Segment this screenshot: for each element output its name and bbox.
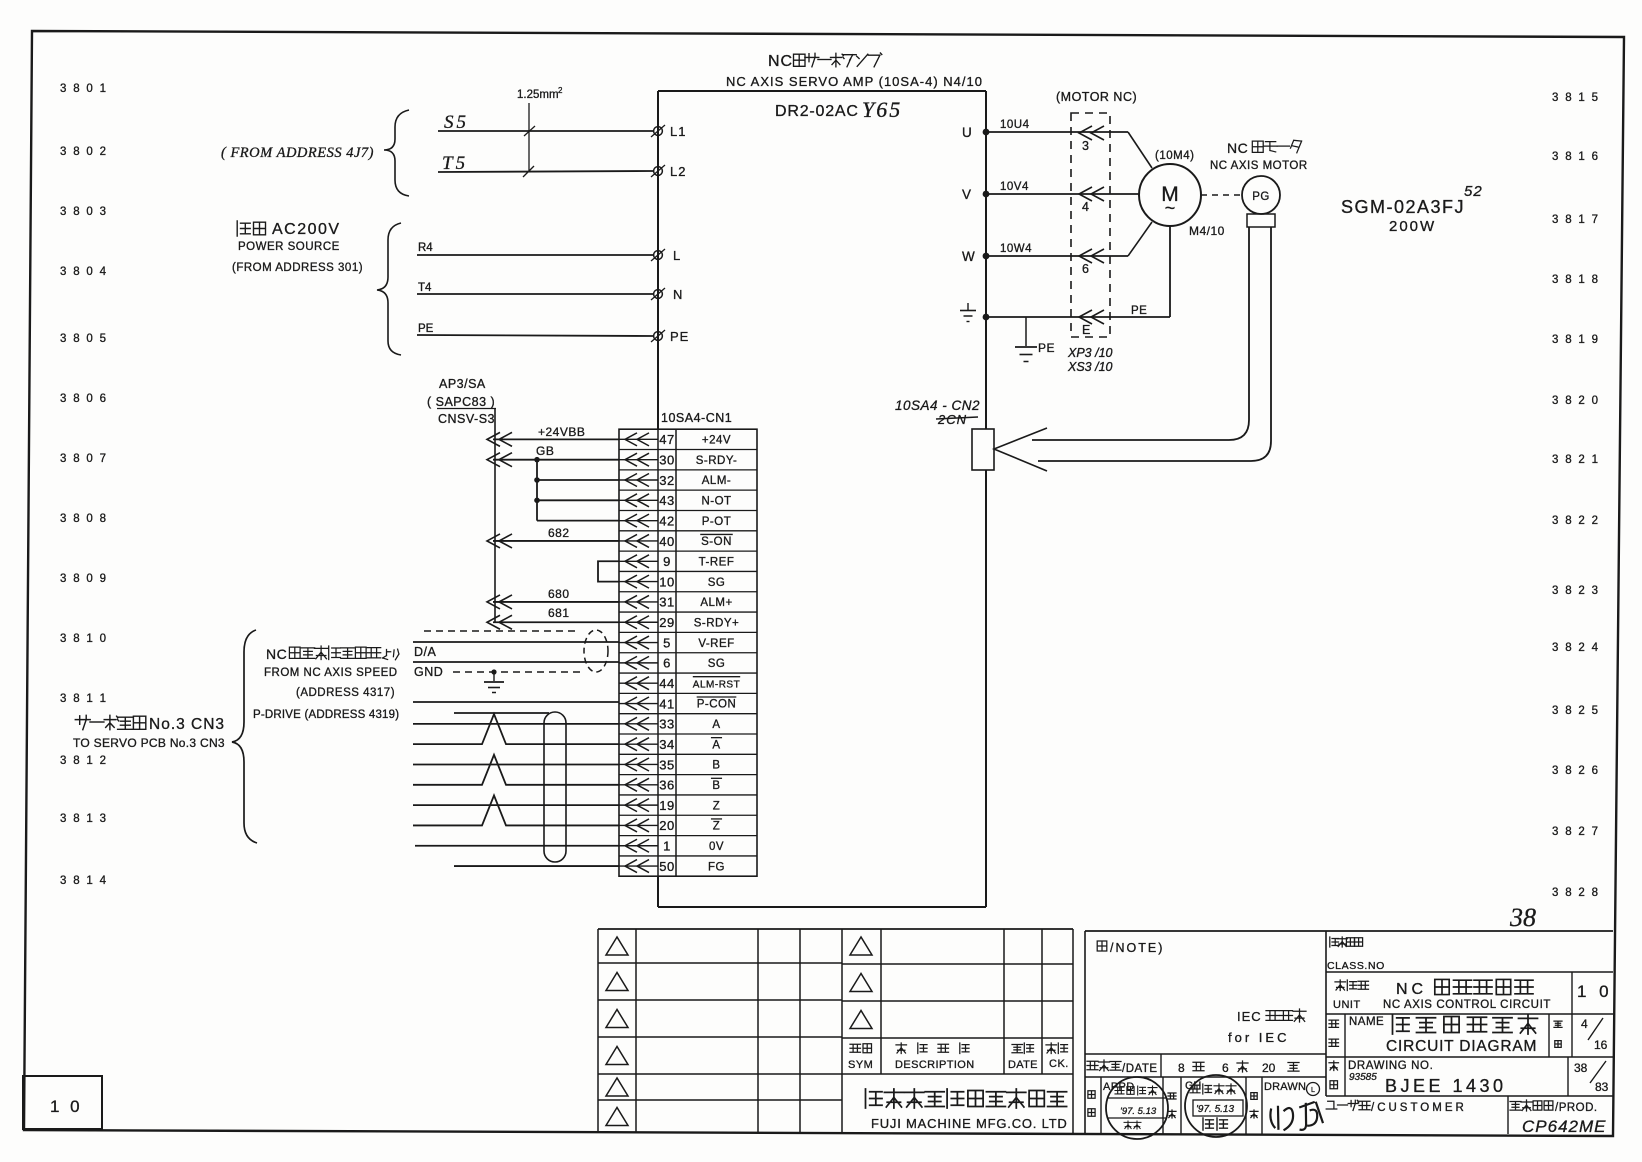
svg-text:( FROM ADDRESS 4J7): ( FROM ADDRESS 4J7) — [221, 145, 374, 161]
svg-text:36: 36 — [659, 778, 674, 793]
sheet number box 10 — [23, 1076, 102, 1129]
twisted pair A/A- pins 33/34 — [413, 714, 619, 744]
wire size callout 1.25mm2 — [517, 86, 563, 177]
svg-text:2CN: 2CN — [937, 412, 967, 427]
svg-text:10W4: 10W4 — [1000, 243, 1032, 255]
svg-text:S-RDY+: S-RDY+ — [694, 617, 740, 629]
label AP3/SA connector — [427, 377, 496, 426]
svg-text:/NOTE): /NOTE) — [1110, 941, 1164, 955]
svg-text:29: 29 — [659, 615, 674, 630]
svg-text:52: 52 — [1464, 183, 1483, 200]
svg-text:3 8 0 5: 3 8 0 5 — [60, 333, 108, 345]
svg-text:(10M4): (10M4) — [1155, 150, 1194, 162]
svg-text:200W: 200W — [1389, 218, 1436, 235]
svg-text:3 8 2 4: 3 8 2 4 — [1552, 642, 1600, 654]
brace from address 4J7 group — [384, 110, 409, 196]
svg-text:3 8 0 2: 3 8 0 2 — [60, 146, 108, 158]
wire P-DRIVE to pin41 P-CON — [413, 701, 619, 703]
encoder PG — [1242, 176, 1280, 227]
svg-text:L: L — [673, 248, 681, 263]
svg-text:43: 43 — [659, 493, 674, 508]
svg-text:FG: FG — [708, 861, 725, 873]
label servo PCB No.3 CN3 — [75, 715, 225, 733]
brace power source group — [377, 223, 401, 355]
brace servo PCB group — [232, 630, 257, 843]
svg-text:4: 4 — [1082, 200, 1089, 214]
svg-text:S-RDY-: S-RDY- — [696, 455, 738, 467]
svg-text:3: 3 — [1082, 139, 1089, 153]
label power source AC200V — [237, 221, 340, 238]
date row — [1085, 1054, 1326, 1077]
twisted pair B/B- pins 35/36 — [413, 755, 619, 785]
servo amp model DR2-02AC Y65 — [775, 97, 902, 122]
svg-text:NAME: NAME — [1349, 1016, 1384, 1028]
svg-text:UNIT: UNIT — [1333, 999, 1361, 1011]
svg-text:3 8 1 2: 3 8 1 2 — [60, 755, 108, 767]
svg-text:83: 83 — [1595, 1080, 1609, 1094]
svg-text:ALM+: ALM+ — [700, 597, 732, 609]
svg-text:/CUSTOMER: /CUSTOMER — [1371, 1102, 1467, 1114]
svg-text:M4/10: M4/10 — [1189, 224, 1225, 238]
svg-text:50: 50 — [659, 859, 674, 874]
pin 43 N-OT row — [619, 493, 732, 508]
terminal U output — [962, 125, 989, 140]
svg-text:Z: Z — [713, 800, 721, 812]
svg-text:10SA4 - CN2: 10SA4 - CN2 — [895, 398, 980, 413]
svg-text:10SA4-CN1: 10SA4-CN1 — [661, 411, 732, 425]
note box — [1085, 931, 1613, 1134]
svg-text:XP3 /10: XP3 /10 — [1067, 346, 1113, 360]
svg-text:SGM-02A3FJ: SGM-02A3FJ — [1341, 197, 1465, 217]
svg-text:ALM-: ALM- — [702, 475, 731, 487]
handwritten drawn by Esaka — [1269, 1101, 1323, 1133]
revision triangles left — [606, 937, 628, 1126]
label SGM-02A3FJ 200W — [1341, 183, 1483, 235]
junction bus ALM-/N-OT/P-OT — [534, 457, 619, 521]
svg-text:PE: PE — [418, 323, 434, 335]
svg-text:1 0: 1 0 — [1577, 982, 1613, 1001]
svg-text:~: ~ — [1165, 198, 1176, 218]
svg-text:10U4: 10U4 — [1000, 119, 1030, 131]
left margin line numbers 3801-3814 — [60, 83, 108, 887]
svg-text:for IEC: for IEC — [1228, 1030, 1289, 1045]
svg-text:S5: S5 — [444, 112, 469, 133]
pin 1 0V row — [619, 839, 724, 854]
pin 29 S-RDY+ row — [619, 615, 739, 630]
wire R4 to L — [417, 242, 653, 255]
svg-text:10: 10 — [659, 574, 674, 589]
wire 0V pin1 — [415, 845, 619, 847]
svg-text:N-OT: N-OT — [701, 496, 731, 508]
svg-text:V-REF: V-REF — [698, 638, 734, 650]
wire W 10W4 — [986, 222, 1152, 256]
svg-text:0V: 0V — [709, 841, 724, 853]
terminal V output — [962, 187, 989, 202]
pin 36 B row — [619, 778, 722, 793]
svg-text:NC: NC — [266, 646, 287, 662]
svg-text:+24V: +24V — [702, 435, 731, 447]
svg-text:19: 19 — [659, 798, 674, 813]
svg-text:10V4: 10V4 — [1000, 181, 1029, 193]
svg-text:6: 6 — [1222, 1061, 1229, 1075]
svg-text:SYM: SYM — [848, 1059, 873, 1071]
svg-text:20: 20 — [1262, 1061, 1276, 1075]
svg-text:3 8 0 3: 3 8 0 3 — [60, 206, 108, 218]
svg-text:35: 35 — [659, 757, 674, 772]
svg-text:32: 32 — [659, 473, 674, 488]
svg-text:No.3 CN3: No.3 CN3 — [149, 716, 225, 733]
pin 32 ALM- row — [619, 473, 731, 488]
pin 40 S-ON row — [619, 534, 733, 549]
svg-text:4: 4 — [1581, 1017, 1588, 1031]
svg-text:6: 6 — [1082, 262, 1089, 276]
motor pin 3 arrow — [1079, 126, 1104, 153]
svg-text:( SAPC83 ): ( SAPC83 ) — [427, 395, 495, 409]
wire PE motor earth — [986, 226, 1170, 317]
terminal W output — [962, 249, 989, 264]
svg-text:1 0: 1 0 — [50, 1097, 83, 1116]
motor pin E arrow — [1079, 310, 1104, 337]
svg-text:PE: PE — [670, 329, 689, 344]
svg-text:42: 42 — [659, 513, 674, 528]
svg-text:3 8 0 7: 3 8 0 7 — [60, 453, 108, 465]
svg-text:6: 6 — [663, 656, 671, 671]
connector 10SA4-CN2 — [972, 428, 1047, 471]
company box Fuji Machine — [866, 1089, 1068, 1131]
wire 682 pin40 to CNSV-S3 — [487, 526, 619, 548]
svg-text:3 8 1 9: 3 8 1 9 — [1552, 334, 1600, 346]
revision triangles right — [850, 937, 872, 1029]
wire V 10V4 — [986, 181, 1139, 194]
pin 44 ALM-RST row — [619, 676, 740, 691]
svg-text:33: 33 — [659, 717, 674, 732]
svg-text:3 8 2 1: 3 8 2 1 — [1552, 454, 1600, 466]
svg-text:(FROM ADDRESS 301): (FROM ADDRESS 301) — [232, 262, 363, 274]
svg-text:1: 1 — [663, 839, 671, 854]
svg-text:40: 40 — [659, 534, 674, 549]
svg-text:3 8 1 8: 3 8 1 8 — [1552, 274, 1600, 286]
svg-text:3 8 0 4: 3 8 0 4 — [60, 266, 108, 278]
revision table left section — [598, 929, 1073, 1133]
pin 20 Z row — [619, 818, 722, 833]
wire GB pin30 to CNSV-S3 — [487, 444, 619, 467]
svg-text:D/A: D/A — [414, 645, 437, 659]
svg-text:3 8 1 6: 3 8 1 6 — [1552, 151, 1600, 163]
svg-text:3 8 0 9: 3 8 0 9 — [60, 573, 108, 585]
svg-text:SG: SG — [708, 577, 726, 589]
approval stamps row — [1085, 1077, 1326, 1134]
svg-text:+24VBB: +24VBB — [538, 425, 585, 439]
svg-text:Y65: Y65 — [862, 97, 902, 122]
svg-text:NC AXIS SERVO AMP (10SA-4) N4/: NC AXIS SERVO AMP (10SA-4) N4/10 — [726, 74, 983, 89]
servo amp box 10SA-4 outline — [658, 91, 986, 907]
svg-text:AP3/SA: AP3/SA — [439, 377, 486, 391]
svg-text:3 8 2 6: 3 8 2 6 — [1552, 765, 1600, 777]
unit row NC axis control circuit — [1326, 972, 1613, 1014]
svg-text:T5: T5 — [442, 153, 468, 174]
wire +24VBB pin47 to CNSV-S3 — [487, 425, 619, 446]
bus CNSV-S3 vertical — [494, 409, 496, 622]
svg-text:L1: L1 — [670, 124, 686, 139]
pin 41 P-CON row — [619, 696, 736, 711]
wire 681 pin29 to CNSV-S3 — [487, 606, 619, 629]
svg-text:3 8 1 7: 3 8 1 7 — [1552, 214, 1600, 226]
pin 5 V-REF row — [619, 635, 735, 650]
svg-text:3 8 2 7: 3 8 2 7 — [1552, 826, 1600, 838]
svg-text:DATE: DATE — [1008, 1059, 1038, 1071]
svg-text:(ADDRESS 4317): (ADDRESS 4317) — [296, 687, 395, 699]
wire 680 pin31 to CNSV-S3 — [487, 587, 619, 609]
svg-text:1.25mm: 1.25mm — [517, 89, 559, 101]
wire T5 to L2 — [438, 153, 653, 174]
svg-text:5: 5 — [663, 635, 671, 650]
revision header SYM/DESCRIPTION/DATE/CK — [848, 1043, 1069, 1071]
svg-text:T-REF: T-REF — [699, 556, 735, 568]
svg-text:3 8 2 3: 3 8 2 3 — [1552, 585, 1600, 597]
svg-text:Z: Z — [713, 821, 721, 833]
right margin line numbers 3815-3828 — [1552, 92, 1600, 899]
svg-text:'97. 5.13: '97. 5.13 — [1120, 1106, 1157, 1117]
svg-text:3 8 2 8: 3 8 2 8 — [1552, 887, 1600, 899]
wire T4 to N — [417, 282, 653, 294]
svg-text:3 8 2 5: 3 8 2 5 — [1552, 705, 1600, 717]
pin 33 A row — [619, 717, 721, 732]
pin 9 T-REF row — [619, 554, 734, 569]
svg-text:93585: 93585 — [1349, 1072, 1377, 1083]
svg-text:A: A — [712, 739, 720, 751]
svg-text:FROM NC AXIS SPEED: FROM NC AXIS SPEED — [264, 667, 398, 679]
svg-text:N: N — [673, 287, 683, 302]
dashed link motor to PG — [1201, 194, 1242, 196]
svg-text:CNSV-S3: CNSV-S3 — [438, 412, 495, 426]
svg-text:CK.: CK. — [1049, 1058, 1069, 1070]
motor pin 6 arrow — [1079, 249, 1104, 276]
label NC axis motor JP — [1227, 140, 1302, 156]
svg-text:/DATE: /DATE — [1122, 1063, 1158, 1075]
svg-text:20: 20 — [659, 818, 674, 833]
svg-text:TO SERVO PCB No.3 CN3: TO SERVO PCB No.3 CN3 — [73, 736, 225, 750]
svg-text:DRAWING NO.: DRAWING NO. — [1348, 1060, 1433, 1072]
svg-text:CLASS.NO: CLASS.NO — [1327, 960, 1385, 972]
pin 42 P-OT row — [619, 513, 731, 528]
svg-text:SG: SG — [708, 658, 726, 670]
svg-text:47: 47 — [659, 432, 674, 447]
terminal L1 — [651, 124, 686, 139]
svg-text:L: L — [1311, 1087, 1315, 1094]
revision table right section — [842, 929, 1073, 1133]
svg-text:P-DRIVE (ADDRESS 4319): P-DRIVE (ADDRESS 4319) — [253, 709, 399, 721]
wire FG pin50 — [454, 865, 619, 867]
svg-text:PG: PG — [1252, 191, 1270, 203]
svg-text:DR2-02AC: DR2-02AC — [775, 103, 859, 120]
svg-text:FUJI MACHINE MFG.CO. LTD: FUJI MACHINE MFG.CO. LTD — [871, 1116, 1068, 1131]
note IEC — [1228, 1009, 1306, 1045]
svg-text:44: 44 — [659, 676, 674, 691]
svg-text:3 8 1 0: 3 8 1 0 — [60, 633, 108, 645]
terminal N — [651, 287, 683, 302]
svg-text:POWER SOURCE: POWER SOURCE — [238, 241, 340, 253]
pin 35 B row — [619, 757, 721, 772]
svg-text:DRAWN: DRAWN — [1264, 1081, 1306, 1093]
svg-text:(MOTOR NC): (MOTOR NC) — [1056, 90, 1137, 104]
svg-text:S-ON: S-ON — [701, 536, 732, 548]
svg-text:30: 30 — [659, 452, 674, 467]
svg-text:38: 38 — [1574, 1061, 1588, 1075]
svg-text:L2: L2 — [670, 164, 686, 179]
wire S5 to L1 — [438, 112, 653, 133]
motor pin 4 arrow — [1079, 187, 1104, 214]
servo amp JP title NC axis servo amp — [768, 53, 882, 70]
pin 47 +24V row — [619, 432, 731, 447]
svg-text:B: B — [712, 780, 720, 792]
svg-text:/PROD.: /PROD. — [1555, 1102, 1598, 1114]
wire U 10U4 — [986, 119, 1152, 168]
svg-text:NC AXIS MOTOR: NC AXIS MOTOR — [1210, 160, 1308, 172]
pin 31 ALM+ row — [619, 595, 733, 610]
svg-text:3 8 1 4: 3 8 1 4 — [60, 875, 108, 887]
svg-text:IEC: IEC — [1237, 1009, 1262, 1024]
svg-text:R4: R4 — [418, 242, 433, 254]
svg-text:38: 38 — [1509, 903, 1536, 932]
svg-text:16: 16 — [1594, 1038, 1608, 1052]
loop pins 9-10 T-REF/SG — [598, 561, 619, 581]
name row circuit diagram — [1326, 1014, 1613, 1057]
connector table 10SA4-CN1 — [619, 411, 757, 876]
svg-text:NC: NC — [1227, 140, 1248, 156]
pin 19 Z row — [619, 798, 720, 813]
svg-text:B: B — [712, 760, 720, 772]
svg-text:3 8 1 5: 3 8 1 5 — [1552, 92, 1600, 104]
svg-text:CIRCUIT DIAGRAM: CIRCUIT DIAGRAM — [1386, 1038, 1537, 1055]
cable shield tube — [454, 712, 566, 862]
encoder cable — [1032, 227, 1271, 461]
svg-text:XS3 /10: XS3 /10 — [1067, 360, 1113, 374]
ground PE near amp — [1015, 317, 1055, 362]
svg-text:2: 2 — [558, 86, 563, 95]
labels XP3/XS3 — [1067, 346, 1113, 374]
svg-text:8: 8 — [1178, 1061, 1185, 1075]
svg-text:NC: NC — [1396, 981, 1427, 998]
svg-text:NC: NC — [768, 53, 793, 70]
terminal L — [651, 248, 681, 263]
svg-text:680: 680 — [548, 587, 570, 601]
svg-text:3 8 2 0: 3 8 2 0 — [1552, 395, 1600, 407]
motor M 10M4 — [1139, 150, 1225, 238]
class no box — [1326, 937, 1613, 972]
svg-text:P-CON: P-CON — [697, 699, 737, 711]
label NC axis speed output — [266, 646, 399, 662]
wire PE to PE terminal — [417, 323, 653, 336]
svg-text:682: 682 — [548, 526, 570, 540]
svg-text:34: 34 — [659, 737, 674, 752]
label 10SA4-CN2 — [895, 398, 980, 427]
svg-text:3 8 0 1: 3 8 0 1 — [60, 83, 108, 95]
customer row — [1326, 1096, 1606, 1136]
pin 30 S-RDY- row — [619, 452, 737, 467]
ground on GND shield — [484, 669, 504, 692]
svg-text:3 8 0 8: 3 8 0 8 — [60, 513, 108, 525]
svg-text:41: 41 — [659, 696, 674, 711]
pin 50 FG row — [619, 859, 725, 874]
svg-text:3 8 0 6: 3 8 0 6 — [60, 393, 108, 405]
svg-text:681: 681 — [548, 606, 570, 620]
terminal L2 — [651, 164, 686, 179]
drawing no row BJEE1430 — [1326, 1057, 1613, 1096]
pin 34 A row — [619, 737, 722, 752]
svg-text:3 8 1 1: 3 8 1 1 — [60, 693, 108, 705]
svg-text:V: V — [962, 187, 972, 202]
svg-text:GB: GB — [536, 444, 554, 458]
svg-text:3 8 2 2: 3 8 2 2 — [1552, 515, 1600, 527]
svg-text:3 8 1 3: 3 8 1 3 — [60, 813, 108, 825]
svg-text:PE: PE — [1131, 305, 1147, 317]
svg-text:PE: PE — [1038, 341, 1055, 355]
svg-text:NC AXIS CONTROL CIRCUIT: NC AXIS CONTROL CIRCUIT — [1383, 999, 1551, 1011]
svg-text:P-OT: P-OT — [702, 516, 731, 528]
terminal PE output earth symbol — [960, 303, 989, 322]
shielded pair D/A to V-REF/SG — [413, 630, 619, 679]
svg-text:E: E — [1082, 323, 1090, 337]
svg-text:'97. 5.13: '97. 5.13 — [1196, 1104, 1234, 1115]
stamp APPD — [1106, 1077, 1168, 1139]
twisted pair Z/Z- pins 19/20 — [413, 795, 619, 825]
svg-text:GND: GND — [414, 665, 443, 679]
svg-text:A: A — [712, 719, 720, 731]
svg-text:BJEE 1430: BJEE 1430 — [1385, 1076, 1507, 1096]
svg-text:DESCRIPTION: DESCRIPTION — [895, 1059, 975, 1071]
svg-text:31: 31 — [659, 595, 674, 610]
svg-text:AC200V: AC200V — [272, 221, 341, 238]
svg-text:ALM-RST: ALM-RST — [693, 679, 740, 690]
motor NC dashed box — [1056, 90, 1137, 337]
svg-text:W: W — [962, 249, 976, 264]
terminal PE — [651, 329, 689, 344]
svg-text:U: U — [962, 125, 973, 140]
svg-text:CP642ME: CP642ME — [1522, 1117, 1606, 1136]
stamp CHECKED — [1185, 1075, 1247, 1137]
svg-text:9: 9 — [663, 554, 671, 569]
pin 6 SG row — [619, 656, 725, 671]
svg-text:T4: T4 — [418, 282, 432, 294]
pin 10 SG row — [619, 574, 725, 589]
